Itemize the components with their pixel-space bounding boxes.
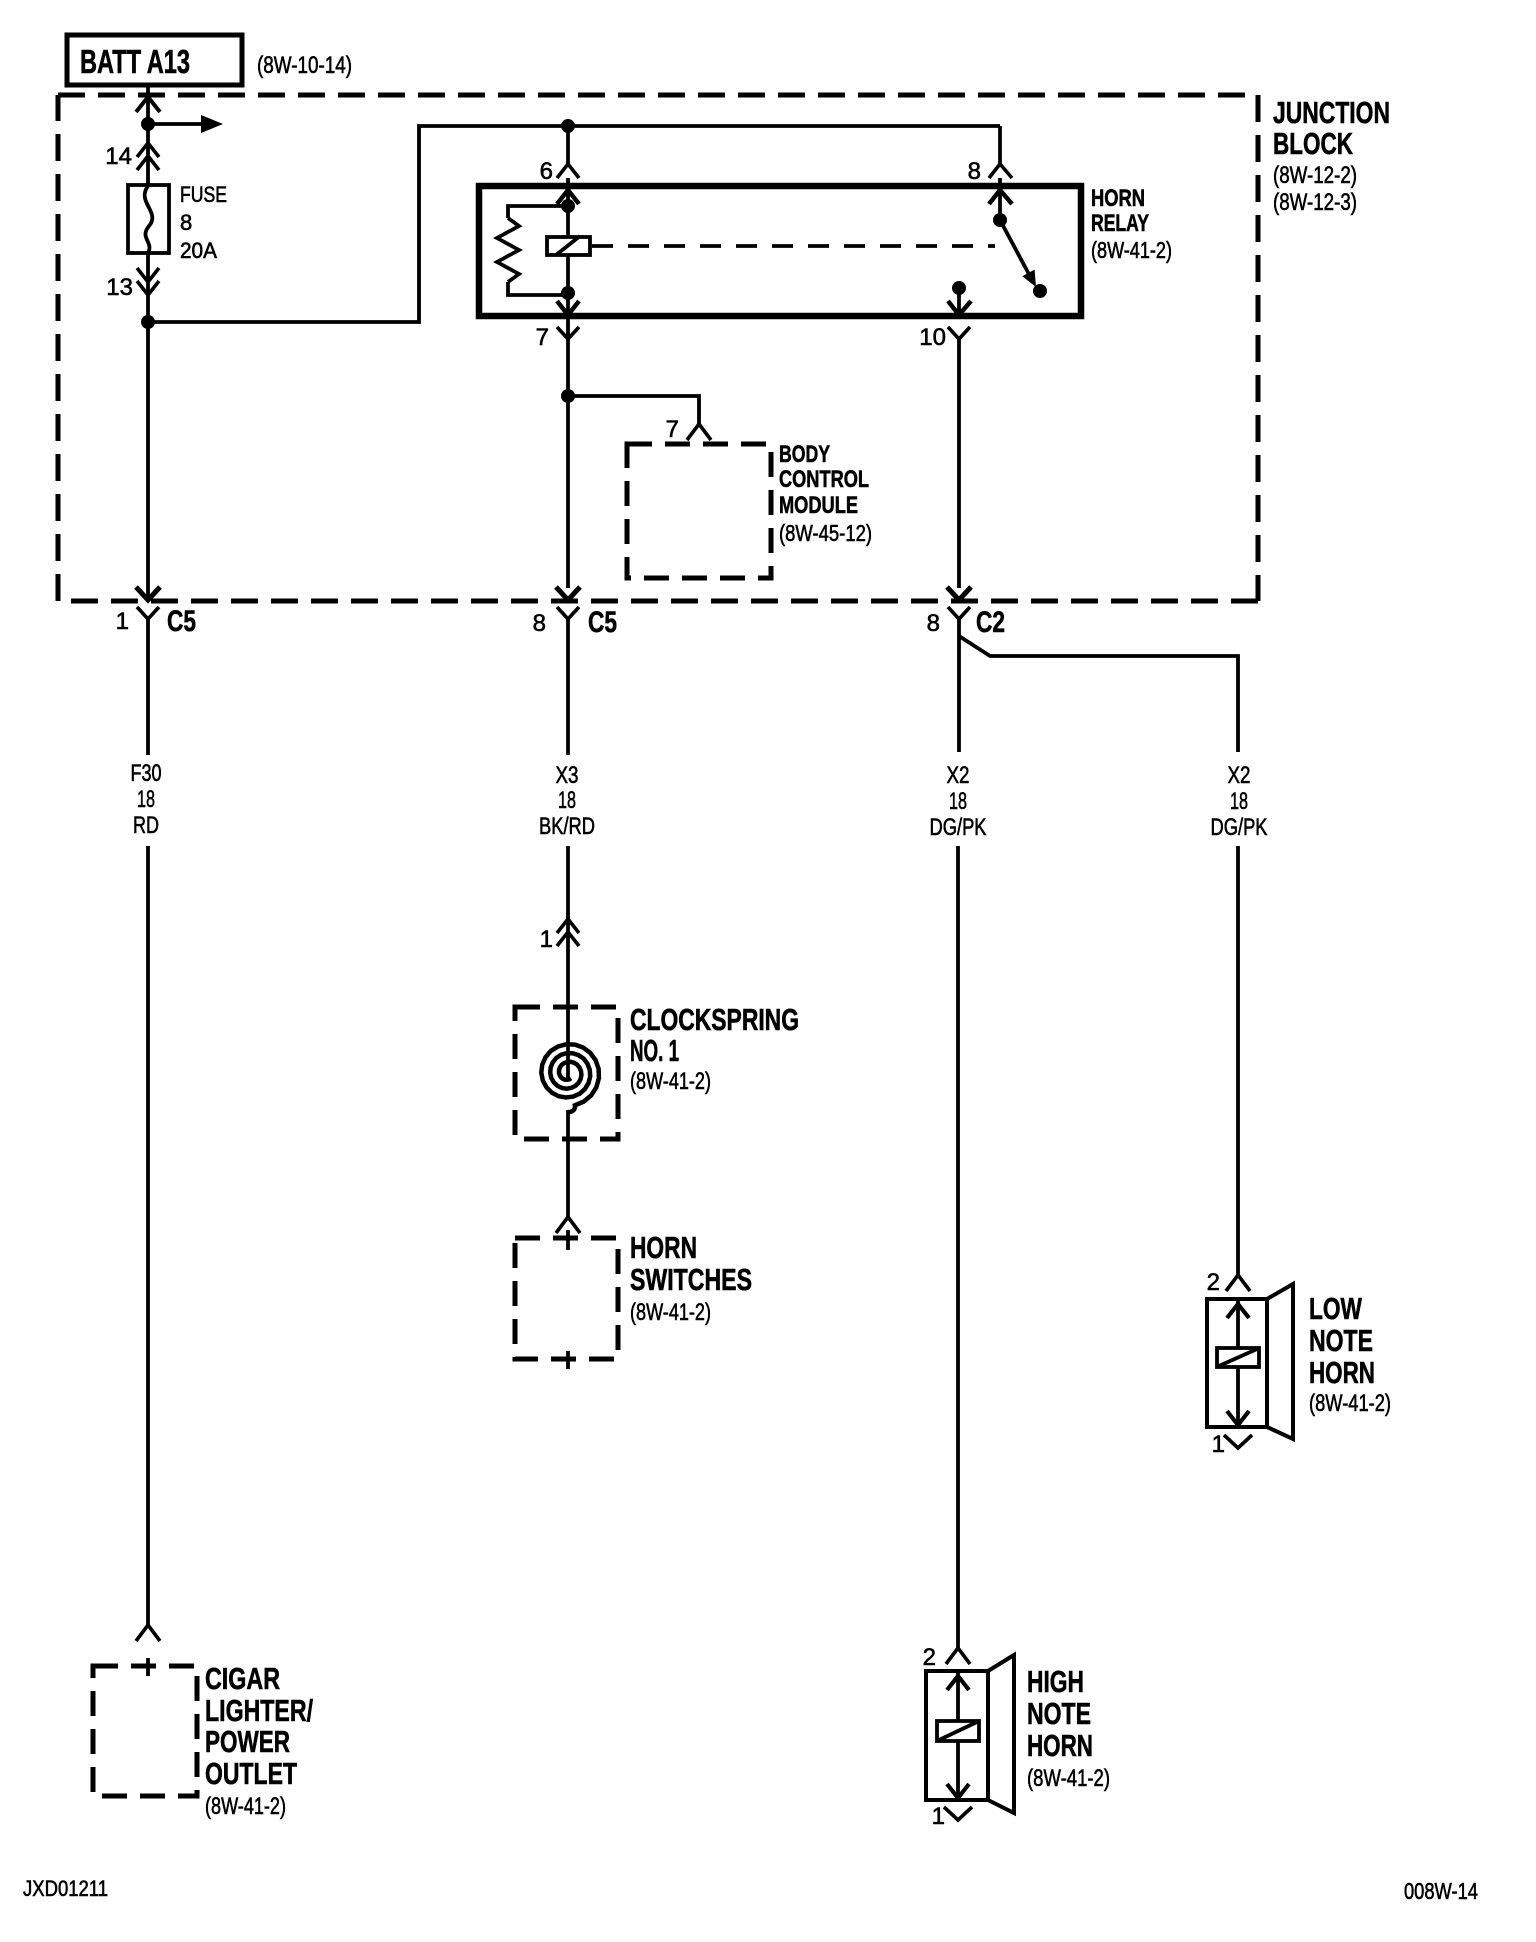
- svg-text:RELAY: RELAY: [1091, 210, 1149, 237]
- body control module dashed box: [627, 444, 771, 578]
- relay pin 6 internal arrow: [557, 190, 579, 204]
- wire bus down to relay pin 8: [998, 126, 1002, 164]
- wire relay coil vertical: [566, 178, 570, 338]
- svg-text:18: 18: [558, 787, 576, 814]
- svg-text:BK/RD: BK/RD: [539, 813, 595, 840]
- pin 13 in-line connector: [137, 268, 159, 295]
- svg-text:HORN: HORN: [1027, 1728, 1093, 1763]
- svg-text:1: 1: [1212, 1431, 1225, 1458]
- wire C2 pin8 down: [957, 619, 961, 752]
- relay pin 10 internal arrow: [948, 301, 971, 315]
- svg-text:(8W-41-2): (8W-41-2): [630, 1299, 711, 1326]
- high note horn coil: [937, 1721, 979, 1741]
- pin 7 connector below relay: [557, 327, 579, 339]
- wire tick into cigar lighter box: [146, 1658, 150, 1676]
- wire batt feed down to fuse: [146, 87, 150, 185]
- svg-text:RD: RD: [133, 812, 159, 839]
- pin 10 connector below relay: [948, 327, 970, 339]
- wire down to high note horn: [956, 846, 960, 1648]
- wire relay pin 10 down to C2: [957, 339, 961, 588]
- high note horn internal arrow top: [947, 1676, 969, 1690]
- connector 8 C2: [948, 607, 970, 619]
- svg-text:F30: F30: [131, 760, 162, 787]
- svg-text:18: 18: [949, 788, 967, 815]
- svg-text:(8W-12-2): (8W-12-2): [1273, 162, 1357, 189]
- svg-text:(8W-41-2): (8W-41-2): [1091, 237, 1172, 263]
- high note horn internal arrow bottom: [947, 1784, 969, 1798]
- connector 1 low note horn: [1224, 1435, 1252, 1448]
- svg-text:DG/PK: DG/PK: [930, 814, 987, 841]
- node relay coil bottom: [561, 286, 575, 300]
- horn switches label: [630, 1230, 752, 1326]
- clockspring dashed box: [515, 1007, 618, 1139]
- wire bus down to relay pin 6: [566, 126, 570, 164]
- pin 8 connector: [989, 164, 1012, 178]
- node BCM branch: [561, 389, 575, 403]
- svg-text:(8W-41-2): (8W-41-2): [1309, 1390, 1391, 1417]
- clockspring label: [630, 1002, 799, 1095]
- node bus to relay coil: [561, 119, 575, 133]
- svg-text:CONTROL: CONTROL: [779, 466, 869, 493]
- low note horn internal arrow top: [1227, 1304, 1249, 1318]
- low note horn label: [1309, 1291, 1391, 1417]
- svg-text:18: 18: [1230, 788, 1248, 815]
- junction block label: [1273, 95, 1390, 216]
- relay pin 8 internal arrow: [989, 190, 1012, 204]
- wire clockspring to horn switches: [566, 1110, 570, 1217]
- svg-text:1: 1: [540, 926, 553, 953]
- svg-text:20A: 20A: [180, 238, 217, 263]
- arrow wire X2 into border: [947, 587, 971, 600]
- svg-text:1: 1: [932, 1803, 945, 1830]
- high note horn body: [926, 1655, 1014, 1813]
- svg-text:(8W-41-2): (8W-41-2): [630, 1068, 711, 1095]
- pin 6 connector: [557, 164, 579, 178]
- relay coil symbol: [547, 236, 590, 255]
- svg-text:CIGAR: CIGAR: [205, 1661, 280, 1696]
- high note horn internal wire: [956, 1671, 960, 1798]
- svg-text:NO. 1: NO. 1: [630, 1033, 679, 1068]
- clockspring spiral symbol: [541, 1044, 599, 1112]
- wire tick below horn switches box: [566, 1351, 570, 1369]
- svg-text:X2: X2: [1228, 762, 1251, 789]
- node relay switch pivot: [993, 213, 1007, 227]
- wire fuse output to relay bus: [148, 126, 1000, 322]
- connector into cigar lighter: [136, 1625, 160, 1641]
- svg-text:(8W-10-14): (8W-10-14): [257, 52, 352, 79]
- fuse 8 20A: [128, 185, 169, 253]
- cigar lighter dashed box: [93, 1666, 197, 1796]
- wire branch to low note horn: [959, 636, 1238, 752]
- svg-text:JUNCTION: JUNCTION: [1273, 95, 1390, 130]
- relay pin 7 internal arrow: [557, 301, 579, 315]
- svg-text:8: 8: [927, 610, 940, 637]
- svg-text:X2: X2: [947, 762, 970, 789]
- svg-text:HIGH: HIGH: [1027, 1664, 1084, 1699]
- pin 1 in-line connector clockspring: [557, 919, 579, 946]
- wire branch to body control module: [568, 396, 699, 424]
- high note horn label: [1027, 1664, 1110, 1792]
- svg-text:2: 2: [1207, 1269, 1220, 1296]
- node relay coil top: [561, 199, 575, 213]
- node relay normally-open contact: [952, 281, 966, 295]
- svg-text:C2: C2: [976, 606, 1005, 639]
- pin 14 in-line connector: [137, 143, 159, 170]
- svg-text:2: 2: [923, 1644, 936, 1671]
- connector 1 C5: [137, 607, 159, 619]
- svg-text:DG/PK: DG/PK: [1211, 814, 1268, 841]
- svg-text:NOTE: NOTE: [1027, 1696, 1091, 1731]
- pin 7 connector body control module: [687, 424, 711, 440]
- body control module label: [779, 441, 872, 546]
- relay switch blade: [1000, 220, 1047, 298]
- svg-text:7: 7: [666, 416, 679, 443]
- svg-text:8: 8: [533, 610, 546, 637]
- wire C5 pin1 down: [146, 619, 150, 755]
- connector from BATT A13 into junction block: [136, 97, 160, 112]
- node fuse output junction: [141, 315, 155, 329]
- connector 2 low note horn: [1226, 1275, 1250, 1291]
- low note horn coil: [1217, 1348, 1259, 1367]
- low note horn internal wire: [1236, 1299, 1240, 1425]
- svg-text:BLOCK: BLOCK: [1273, 126, 1353, 161]
- horn switches dashed box: [515, 1238, 618, 1359]
- arrow wire X3 into border: [556, 587, 580, 600]
- horn relay box: [479, 186, 1081, 316]
- svg-text:(8W-12-3): (8W-12-3): [1273, 189, 1357, 216]
- svg-text:OUTLET: OUTLET: [205, 1756, 297, 1791]
- svg-text:1: 1: [116, 608, 129, 635]
- svg-text:FUSE: FUSE: [180, 182, 227, 207]
- connector 2 high note horn: [946, 1648, 970, 1664]
- svg-text:18: 18: [137, 786, 155, 813]
- wire relay pin 7 down to C5: [566, 339, 570, 588]
- svg-text:(8W-41-2): (8W-41-2): [1027, 1765, 1110, 1792]
- svg-text:7: 7: [536, 324, 549, 351]
- svg-text:LOW: LOW: [1309, 1291, 1363, 1326]
- connector 1 high note horn: [944, 1807, 972, 1820]
- svg-text:8: 8: [180, 210, 192, 235]
- connector into horn switches: [556, 1217, 580, 1233]
- wire C5 pin8 down: [566, 619, 570, 755]
- svg-text:NOTE: NOTE: [1309, 1323, 1373, 1358]
- wire label X3 18 BK/RD: [539, 762, 595, 840]
- svg-text:13: 13: [106, 274, 133, 301]
- svg-text:C5: C5: [588, 606, 617, 639]
- wire label F30 18 RD: [131, 760, 162, 839]
- resistor relay shunt: [497, 206, 568, 295]
- svg-text:MODULE: MODULE: [779, 492, 858, 519]
- junction block dashed border: [58, 95, 1258, 601]
- svg-text:14: 14: [105, 143, 132, 170]
- wire tick into horn switches box: [566, 1230, 570, 1250]
- wire fuse output down to C5: [146, 322, 150, 599]
- wire down to low note horn: [1236, 846, 1240, 1275]
- wire down to cigar lighter: [146, 846, 150, 1625]
- svg-text:008W-14: 008W-14: [1404, 1878, 1478, 1904]
- svg-text:SWITCHES: SWITCHES: [630, 1262, 752, 1297]
- wire relay contact to pin 10: [957, 288, 961, 316]
- svg-text:8: 8: [968, 158, 981, 185]
- svg-text:BATT A13: BATT A13: [80, 43, 190, 80]
- wire label X2 18 DG/PK right: [1211, 762, 1268, 841]
- svg-text:BODY: BODY: [779, 441, 830, 468]
- wire relay common: [998, 178, 1002, 220]
- svg-text:(8W-45-12): (8W-45-12): [779, 520, 872, 546]
- svg-text:6: 6: [540, 158, 553, 185]
- svg-text:C5: C5: [167, 605, 196, 638]
- low note horn body: [1207, 1284, 1293, 1439]
- svg-text:HORN: HORN: [630, 1230, 697, 1265]
- svg-text:CLOCKSPRING: CLOCKSPRING: [630, 1002, 799, 1037]
- cigar lighter label: [205, 1661, 313, 1820]
- svg-text:HORN: HORN: [1091, 185, 1145, 212]
- connector 8 C5: [557, 607, 579, 619]
- wire down to clockspring: [566, 846, 570, 1078]
- svg-text:(8W-41-2): (8W-41-2): [205, 1793, 286, 1820]
- relay label: [1091, 185, 1172, 263]
- svg-text:HORN: HORN: [1309, 1355, 1375, 1390]
- wire fuse to lower junction: [146, 253, 150, 322]
- relay coil actuation dashed line: [592, 244, 995, 248]
- svg-text:JXD01211: JXD01211: [23, 1876, 108, 1901]
- arrow wire 1 into border: [136, 587, 160, 600]
- svg-text:LIGHTER/: LIGHTER/: [205, 1693, 313, 1728]
- svg-text:X3: X3: [556, 762, 579, 789]
- svg-text:POWER: POWER: [205, 1724, 290, 1759]
- wire branch arrow to other circuits: [148, 115, 223, 133]
- node battery feed junction: [141, 117, 155, 131]
- svg-text:10: 10: [919, 324, 946, 351]
- battery feed box BATT A13: [67, 35, 242, 85]
- wire label X2 18 DG/PK left: [930, 762, 987, 841]
- low note horn internal arrow bottom: [1227, 1411, 1249, 1425]
